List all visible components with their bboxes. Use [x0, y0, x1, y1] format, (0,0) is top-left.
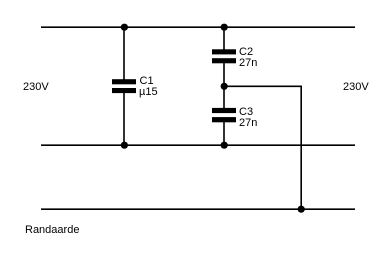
svg-text:230V: 230V: [343, 81, 369, 93]
svg-text:µ15: µ15: [139, 86, 158, 98]
svg-text:Randaarde: Randaarde: [25, 224, 79, 236]
svg-text:230V: 230V: [23, 81, 49, 93]
svg-text:27n: 27n: [239, 117, 257, 129]
svg-text:27n: 27n: [239, 57, 257, 69]
